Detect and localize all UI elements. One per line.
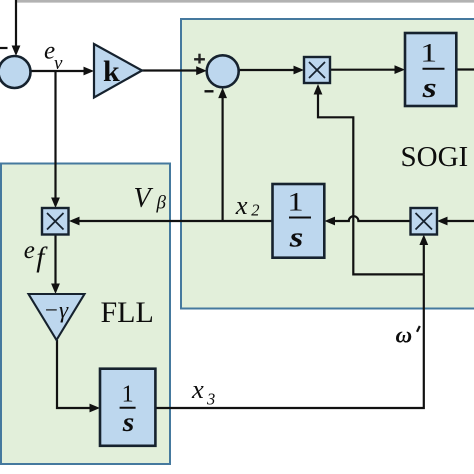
wire: x_2 branch up to S2 minus input (222, 96, 224, 221)
svg-text:v: v (54, 53, 63, 74)
svg-text:3: 3 (206, 390, 215, 409)
svg-text:e: e (24, 237, 35, 264)
svg-text:s: s (122, 408, 135, 437)
wire: v input stub (0, 47, 8, 49)
gain k triangle (94, 44, 142, 98)
FLL block background (1, 164, 170, 465)
svg-text:2: 2 (251, 201, 259, 220)
svg-text:k: k (103, 55, 120, 88)
svg-text:1: 1 (122, 382, 134, 408)
wire: -gamma to integrator U3 (57, 340, 92, 408)
svg-text:β: β (156, 193, 167, 214)
wire: M1 to integrator U1 (330, 69, 397, 71)
wire: U1 output to right edge (456, 68, 474, 70)
wire: omega across to M1 bottom (318, 93, 424, 275)
minus sign at S2 (205, 90, 214, 92)
wire: omega up into M2 bottom (423, 243, 425, 274)
wire: U2 output x_2 to multiplier M3 (78, 220, 273, 222)
SOGI block background (181, 19, 474, 309)
wire: M2 to integrator U2 with hop over omega line (333, 216, 411, 221)
multiplier M3 (42, 208, 69, 235)
plus sign at S2 (194, 54, 205, 64)
svg-text:x: x (191, 374, 204, 404)
svg-text:1: 1 (420, 38, 437, 67)
svg-text:SOGI: SOGI (401, 141, 469, 173)
svg-text:V: V (134, 183, 154, 214)
wire: S1 to gain k (31, 70, 86, 72)
wire: M3 down to gain -gamma (54, 235, 56, 286)
svg-text:x: x (235, 190, 248, 220)
svg-text:ω: ω (396, 323, 413, 348)
wire: right edge into multiplier M2 (446, 220, 474, 222)
multiplier M1 (304, 57, 330, 83)
integrator U1 (1/s) (405, 33, 456, 106)
summer S1 (0, 56, 31, 88)
wire: k to summer S2 (142, 69, 198, 71)
wire: U3 output x_3 right then up (155, 274, 424, 408)
integrator U3 (1/s) (100, 369, 155, 446)
svg-text:1: 1 (287, 188, 303, 216)
wire: e_v branch down to multiplier M3 (54, 71, 56, 200)
gain -gamma triangle (29, 294, 85, 340)
cropped top border line (16, 0, 474, 3)
multiplier M2 (411, 208, 438, 235)
wire: feedback from top into summer S1 (15, 0, 17, 47)
svg-text:FLL: FLL (101, 296, 154, 329)
svg-text:s: s (289, 220, 304, 253)
summer S2 (207, 55, 239, 87)
svg-text:s: s (422, 72, 437, 104)
svg-text:−γ: −γ (44, 298, 70, 323)
wire: S2 to multiplier M1 (239, 69, 296, 71)
integrator U2 (1/s) (273, 184, 325, 258)
